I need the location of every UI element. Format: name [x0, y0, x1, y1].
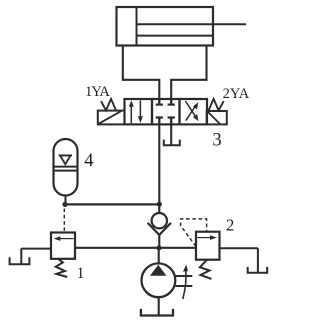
svg-text:2: 2 — [226, 215, 235, 234]
svg-text:2YA: 2YA — [223, 86, 250, 102]
svg-text:1YA: 1YA — [85, 84, 110, 100]
svg-text:3: 3 — [212, 130, 221, 150]
svg-text:1: 1 — [77, 265, 85, 282]
svg-text:4: 4 — [84, 151, 93, 171]
